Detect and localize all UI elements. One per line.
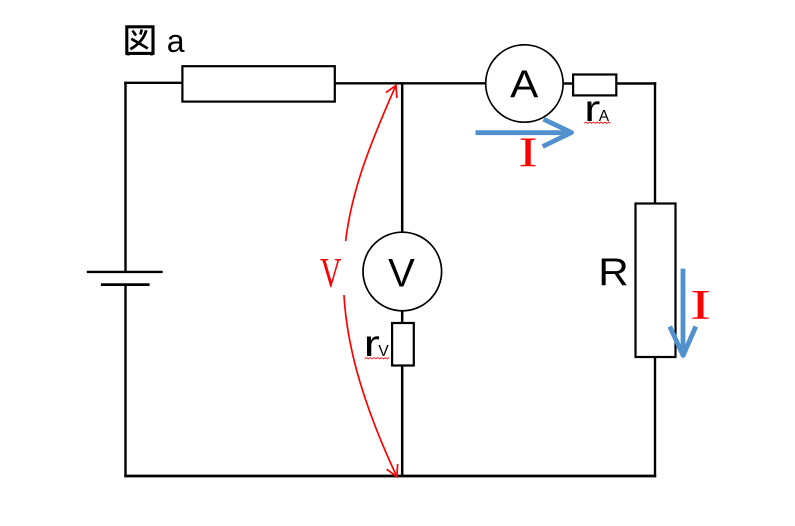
wire voltmeter to rV — [401, 311, 404, 323]
svg-text:V: V — [388, 252, 415, 296]
blue current arrow vertical — [670, 269, 696, 356]
spellcheck squiggle under rA — [584, 122, 611, 123]
label rV — [364, 323, 390, 364]
voltmeter V — [363, 232, 442, 311]
svg-text:a: a — [167, 23, 185, 59]
svg-text:I: I — [690, 283, 711, 329]
wire left vertical upper — [124, 82, 126, 272]
label V (red) on white box — [312, 241, 348, 297]
red measurement arc V — [343, 85, 397, 477]
title 図 a — [127, 23, 185, 59]
label rA — [584, 88, 610, 129]
wire left vertical lower — [124, 285, 126, 478]
svg-text:I: I — [518, 130, 537, 176]
spellcheck squiggle under rV — [365, 358, 390, 359]
svg-text:R: R — [598, 251, 629, 294]
wire ammeter to rA — [563, 82, 573, 84]
blue current arrow horizontal — [476, 119, 572, 146]
wire right vertical lower — [654, 357, 656, 477]
svg-text:V: V — [378, 343, 389, 360]
wire top-left horizontal — [124, 82, 183, 84]
wire right vertical upper — [654, 82, 656, 203]
wire rA to right corner — [616, 82, 656, 84]
wire top-middle horizontal — [335, 82, 486, 84]
svg-text:V: V — [320, 251, 342, 297]
wire middle vertical upper — [401, 82, 404, 232]
battery long plate — [87, 271, 163, 273]
svg-text:A: A — [510, 64, 538, 107]
resistor rV — [392, 323, 414, 366]
battery short plate — [101, 283, 150, 286]
wire rV to bottom — [401, 366, 404, 478]
resistor rA — [573, 75, 616, 96]
ammeter A — [486, 45, 563, 122]
resistor (internal resistance box, top) — [182, 66, 334, 101]
resistor R — [636, 204, 676, 358]
wire bottom horizontal — [124, 475, 656, 478]
